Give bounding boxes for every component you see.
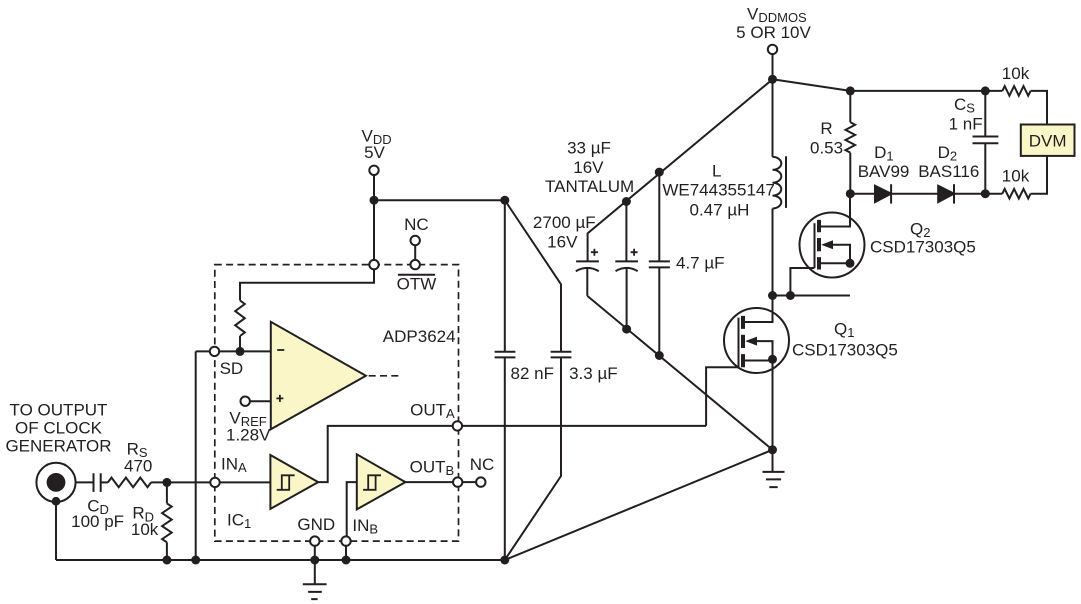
inductor L WE744355147: [773, 157, 782, 209]
svg-text:OF CLOCK: OF CLOCK: [15, 418, 103, 437]
dashed stub from comparator output: [369, 375, 399, 377]
diode D1 cathode bar: [890, 184, 892, 203]
wire switch node horizontal: [773, 295, 851, 297]
wire inductor to switch node: [772, 209, 774, 296]
svg-text:GND: GND: [297, 515, 335, 534]
wire VDD rail: [374, 175, 505, 260]
IC1 ADP3624 dashed boundary: [215, 265, 459, 541]
resistor 10k top: [1002, 86, 1030, 96]
wire INB pin to rail: [345, 546, 347, 560]
svg-text:33 µF: 33 µF: [567, 138, 611, 157]
svg-text:BAV99: BAV99: [858, 162, 910, 181]
svg-text:WE744355147: WE744355147: [662, 181, 774, 200]
diode D1 BAV99: [875, 186, 891, 202]
svg-text:TO OUTPUT: TO OUTPUT: [10, 400, 108, 419]
resistor pullup to SD: [235, 300, 245, 336]
svg-text:4.7 µF: 4.7 µF: [676, 254, 725, 273]
plus sign 33uF: [631, 249, 638, 256]
svg-text:R: R: [820, 119, 832, 138]
resistor RS 470: [108, 478, 151, 488]
svg-text:10k: 10k: [1002, 167, 1030, 186]
diode D2 BAS116: [938, 186, 954, 202]
capacitor 82 nF branch: [495, 200, 516, 560]
svg-text:82 nF: 82 nF: [511, 364, 554, 383]
svg-text:470: 470: [124, 456, 152, 475]
wire VDDMOS diagonal to bulk caps: [588, 79, 773, 261]
svg-text:CSD17303Q5: CSD17303Q5: [870, 237, 976, 256]
wire top rail R to CS: [850, 90, 1002, 92]
wire CD to RS: [101, 481, 108, 483]
bottom ground rail wire: [56, 559, 505, 561]
wire OUTB to NC: [462, 481, 476, 483]
transistor Q1 CSD17303Q5: [724, 308, 789, 373]
capacitor 33uF tantalum: [615, 202, 638, 330]
op-amp minus sign: [277, 349, 284, 351]
svg-text:1 nF: 1 nF: [949, 115, 983, 134]
svg-text:DVM: DVM: [1029, 131, 1067, 150]
wire rail return diagonal to ground node: [505, 450, 773, 560]
svg-text:16V: 16V: [573, 158, 604, 177]
wire SD riser: [196, 351, 210, 560]
wire VREF to op-amp plus: [250, 400, 271, 402]
wire DVM to 10k bottom: [1031, 156, 1047, 194]
svg-text:GENERATOR: GENERATOR: [5, 437, 111, 456]
svg-text:10k: 10k: [1002, 64, 1030, 83]
svg-text:5 OR 10V: 5 OR 10V: [736, 23, 811, 42]
wire 10k bottom to CS bottom: [985, 193, 1002, 195]
svg-text:NC: NC: [470, 455, 495, 474]
wire diode rail: [850, 193, 985, 195]
op-amp U comparator body: [271, 322, 366, 430]
resistor R 0.53: [849, 91, 851, 122]
wire RS to INA: [151, 481, 210, 483]
capacitor C 2700uF 16V: [576, 261, 599, 296]
resistor RD 10k: [166, 482, 168, 503]
diode D2 cathode bar: [953, 184, 955, 203]
svg-text:SD: SD: [220, 359, 244, 378]
svg-text:ADP3624: ADP3624: [383, 327, 456, 346]
svg-text:0.47 µH: 0.47 µH: [690, 201, 750, 220]
capacitor 3.3 uF branch: [505, 200, 572, 560]
wire SD to op-amp minus: [219, 350, 271, 352]
svg-text:NC: NC: [404, 215, 429, 234]
svg-text:2700 µF: 2700 µF: [533, 213, 596, 232]
pin circles: [369, 166, 378, 175]
buffer A hysteresis symbol: [277, 475, 295, 490]
capacitor CD 100 pF: [94, 473, 101, 492]
ground symbol right: [763, 450, 785, 487]
svg-text:L: L: [712, 162, 721, 181]
wire connector to CD: [76, 481, 94, 483]
svg-text:TANTALUM: TANTALUM: [545, 177, 634, 196]
capacitor CS 1 nF: [973, 91, 999, 194]
wire buffer A out to OUTA: [318, 426, 453, 482]
wire bulk caps return diagonal to ground node: [587, 296, 772, 450]
wire INA to buffer A: [220, 481, 271, 483]
svg-text:BAS116: BAS116: [918, 162, 979, 181]
svg-text:5V: 5V: [364, 143, 385, 162]
transistor Q2 CSD17303Q5: [800, 213, 865, 278]
svg-text:10k: 10k: [131, 520, 159, 539]
buffer A schmitt triangle: [270, 455, 318, 509]
resistor 10k bottom: [1002, 189, 1030, 199]
wire VDDMOS to inductor: [772, 79, 774, 157]
svg-text:1.28V: 1.28V: [226, 425, 271, 444]
svg-text:3.3 µF: 3.3 µF: [569, 364, 618, 383]
wire Q1 source to ground node: [772, 359, 774, 450]
svg-text:OTW: OTW: [397, 275, 437, 294]
capacitor 4.7 uF: [649, 172, 670, 355]
wire 10k top to DVM: [1031, 91, 1047, 125]
wire connector down: [55, 501, 57, 560]
wire GND pin to rail: [314, 546, 316, 560]
connector TO OUTPUT OF CLOCK GENERATOR: [36, 463, 75, 502]
buffer B hysteresis symbol: [363, 475, 381, 490]
svg-text:100 pF: 100 pF: [71, 512, 124, 531]
op-amp plus sign: [276, 395, 283, 402]
buffer B schmitt triangle: [357, 454, 406, 509]
wire VDDMOS to R top: [773, 79, 851, 91]
wire buffer B out to OUTB: [405, 481, 453, 483]
svg-text:0.53: 0.53: [810, 138, 843, 157]
svg-text:16V: 16V: [547, 233, 578, 252]
DVM instrument box: [1021, 125, 1075, 156]
svg-text:CSD17303Q5: CSD17303Q5: [792, 340, 898, 359]
plus sign 2700uF: [591, 249, 598, 256]
ground symbol below GND: [303, 560, 327, 599]
junction dots: [370, 196, 379, 205]
wire VDD pin to pullup resistor: [240, 269, 374, 300]
wire NC to OTW pin: [414, 245, 416, 260]
wire VDDMOS terminal lead: [772, 54, 774, 79]
wire INB riser to buffer B input: [347, 482, 357, 536]
wire OUTA to Q1 gate riser: [462, 425, 706, 427]
